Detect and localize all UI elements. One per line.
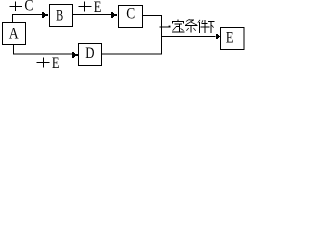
- svg-text:C: C: [24, 0, 33, 15]
- svg-text:C: C: [126, 6, 135, 23]
- svg-text:D: D: [85, 45, 94, 63]
- svg-text:E: E: [52, 55, 60, 70]
- svg-text:E: E: [94, 0, 102, 16]
- svg-text:A: A: [9, 26, 19, 43]
- svg-text:E: E: [226, 29, 234, 47]
- svg-text:B: B: [56, 6, 63, 24]
